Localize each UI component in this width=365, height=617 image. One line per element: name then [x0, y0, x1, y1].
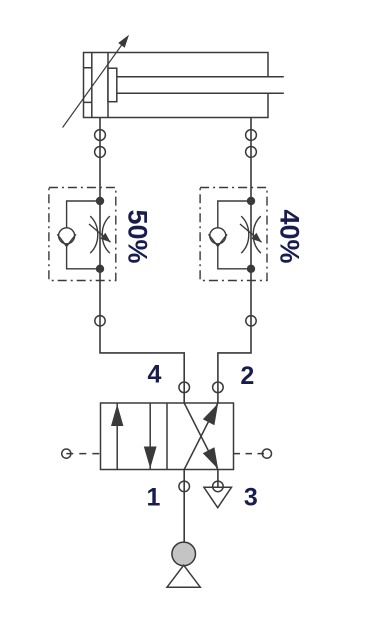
svg-text:50%: 50%: [123, 210, 153, 264]
svg-text:3: 3: [244, 483, 258, 511]
svg-text:1: 1: [147, 484, 161, 512]
svg-text:4: 4: [147, 361, 161, 389]
svg-text:2: 2: [240, 362, 254, 390]
svg-text:40%: 40%: [275, 210, 305, 264]
